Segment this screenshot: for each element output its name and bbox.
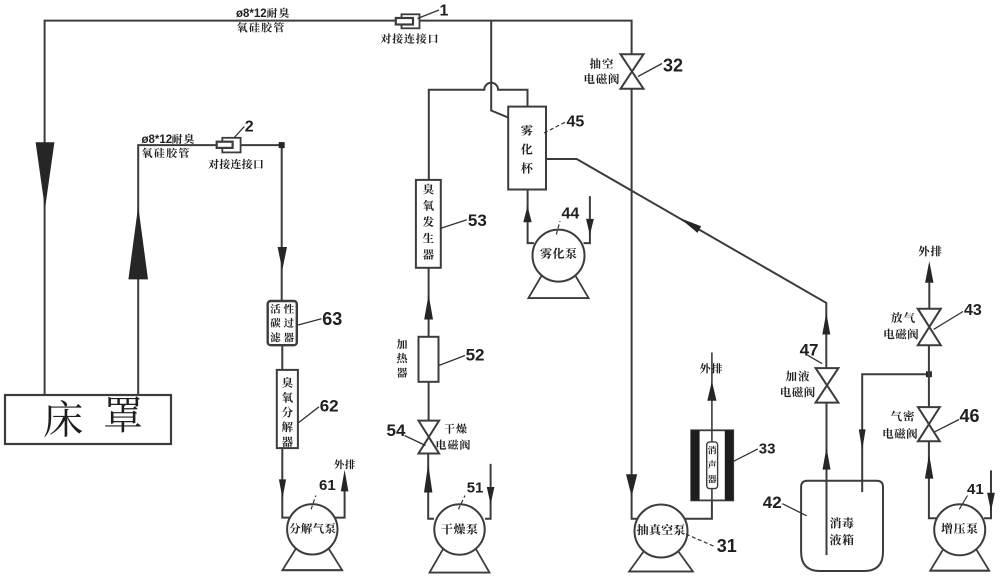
label: pointer and number 63: [298, 319, 322, 325]
valve 32 evacuation solenoid: [621, 54, 644, 71]
wire: evac valve 32 down to vacuum pump 31: [632, 89, 637, 519]
ozone generator 53: [416, 180, 441, 268]
svg-text:ø8*12: ø8*12: [236, 8, 267, 20]
valve 46 airtight solenoid: [918, 407, 940, 424]
bed cover box: [5, 395, 171, 444]
valve 54 drying solenoid: [419, 421, 440, 437]
wire: pump 61 exhaust with outlet arrow: [335, 488, 345, 518]
arrow: flow up from tank to valve 47: [823, 447, 831, 469]
label: pointer and number 51: [458, 496, 465, 510]
label: pointer and number 44: [556, 221, 560, 235]
label: pointer and number 61: [311, 496, 316, 510]
arrow: exhaust up from valve 43: [925, 261, 933, 283]
label: pointer and number 52: [439, 356, 465, 366]
wire: valve 43 to valve 46: [928, 345, 930, 407]
svg-text:43: 43: [964, 302, 982, 319]
svg-text:2: 2: [245, 119, 254, 136]
wire: return pipe bed cover to filter 63: [138, 145, 282, 401]
arrow: flow down into pump 61: [279, 479, 286, 498]
svg-text:61: 61: [319, 477, 336, 494]
label: pointer and number 47: [808, 355, 823, 363]
wire: pump 51 air intake with down arrow: [485, 464, 491, 519]
valve 47 liquid-feed solenoid: [816, 368, 839, 385]
booster pump 41: [930, 548, 989, 571]
arrow: flow up-left along diagonal toward cup: [679, 218, 701, 233]
svg-text:32: 32: [663, 56, 683, 76]
connector 1: [402, 14, 420, 28]
arrow: flow up above valve 47: [822, 313, 830, 335]
atomizing cup 45: [508, 107, 546, 190]
svg-text:42: 42: [763, 493, 782, 512]
svg-text:46: 46: [960, 406, 980, 426]
wire: liquid line cup 45 to valve 47, diagonal: [546, 159, 826, 368]
muffler inner element: [707, 442, 718, 489]
wire: valve 47 down into tank 42: [826, 403, 828, 555]
connector 2: [222, 138, 240, 153]
svg-text:47: 47: [800, 341, 819, 360]
label: pointer and number 33: [734, 449, 758, 461]
label: pointer and number 62: [299, 407, 319, 423]
label: waipai exhaust text at pump 61: [334, 459, 344, 469]
svg-text:ø8*12: ø8*12: [142, 134, 173, 146]
activated carbon filter 63: [268, 301, 297, 345]
wire: valve 46 down to booster pump 41: [929, 441, 936, 518]
label: pointer and number 2: [234, 127, 244, 139]
svg-text:31: 31: [717, 536, 737, 556]
atomizing pump 44: [528, 274, 588, 298]
arrow: flow down on bed inlet line: [36, 142, 55, 208]
svg-text:45: 45: [567, 114, 585, 131]
arrow: flow up from pump 41 to valve 46: [925, 454, 933, 478]
wire: pump 44 air intake: [584, 196, 590, 243]
arrow: flow up from pump 44 into cup 45: [523, 206, 531, 222]
wire: heater 52 to ozone generator 53: [428, 268, 430, 337]
heater 52: [419, 337, 439, 382]
wire: filter 63 to decomposer 62: [281, 345, 283, 370]
arrow: flow down into vacuum pump 31: [626, 474, 637, 496]
node: junction at connector-2 pipe corner: [279, 143, 284, 148]
wire: cup 45 bottom to atomizing pump 44: [528, 190, 534, 244]
disinfectant tank 42: [801, 481, 883, 571]
wire: vertical feed from top pipe down to atomizing cup left side: [491, 21, 508, 118]
wire: exhaust through muffler: [711, 430, 713, 500]
svg-text:52: 52: [466, 345, 485, 364]
label: bed cover text: [44, 400, 82, 437]
muffler 33: [691, 430, 733, 500]
svg-text:51: 51: [467, 480, 484, 497]
wire: exhaust above valve 43: [928, 283, 930, 309]
ozone decomposer 62: [277, 370, 298, 448]
label: docking connector text 2: [208, 159, 218, 169]
arrow: exhaust up from muffler: [707, 381, 716, 401]
svg-text:44: 44: [562, 206, 580, 223]
valve 43 air-release solenoid: [918, 309, 941, 327]
label: pointer and number 42: [782, 504, 806, 516]
vacuum pump 31: [629, 550, 693, 571]
label: pointer and number 41: [959, 496, 967, 510]
node: junction on valve column at vent tee: [927, 372, 932, 377]
label: pointer and number 45: [544, 122, 566, 133]
arrow: flow up on bed return line: [128, 206, 148, 279]
svg-text:33: 33: [759, 441, 776, 458]
label: valve 32 text: [590, 58, 601, 69]
svg-text:1: 1: [440, 3, 449, 20]
label: pointer and number 54: [405, 436, 426, 446]
arrow: flow up from pump 51 to valve 54: [424, 464, 432, 493]
arrow: flow down toward filter 63: [278, 247, 287, 270]
label: pointer and number 53: [440, 220, 467, 229]
label: waipai exhaust text at valve 43: [918, 246, 929, 257]
label: pointer and number 43: [934, 312, 963, 330]
label: waipai exhaust text at muffler: [700, 363, 710, 373]
arrow: flow down into tank on vent line: [859, 429, 866, 450]
wire: pump 31 to muffler 33 and exhaust: [685, 500, 712, 518]
wire: decomposer 62 down to pump 61: [282, 448, 290, 517]
svg-text:54: 54: [387, 421, 406, 440]
label: docking connector text 1: [381, 33, 391, 43]
drying pump 51: [430, 548, 490, 573]
wire: dry pump 51 to valve 54: [428, 454, 434, 519]
wire: valve 54 to heater 52: [428, 382, 430, 421]
svg-text:41: 41: [967, 481, 984, 498]
wire: ozone line 53 top to cup top with hop over feed line: [429, 83, 528, 180]
decomposition pump 61: [282, 547, 342, 570]
svg-text:63: 63: [322, 309, 342, 329]
label: pointer and number 31: [686, 534, 715, 547]
wire: pump 41 air intake: [984, 470, 991, 518]
label: pointer and number 46: [935, 420, 959, 432]
svg-text:62: 62: [320, 397, 339, 416]
arrow: flow up from heater to ozone generator: [424, 295, 433, 320]
wire: top pipe from bed cover to evac valve line: [45, 21, 632, 404]
arrow: exhaust up from pump 61: [341, 470, 349, 492]
wire: tank vent line to airtight/vent valve column: [862, 374, 929, 492]
label: pointer and number 1: [418, 10, 440, 19]
svg-text:53: 53: [468, 211, 487, 230]
